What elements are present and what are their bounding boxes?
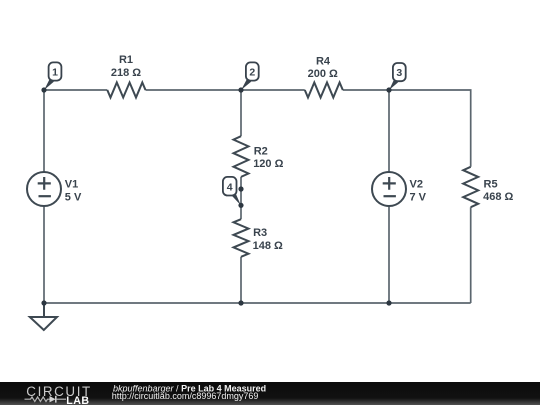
node 2: [241, 62, 258, 90]
voltage source V1: [27, 172, 82, 206]
node 4: [223, 177, 241, 206]
wire: R5 to bottom-right corner: [470, 207, 472, 303]
footer url line: [112, 391, 259, 401]
svg-text:R2: R2: [254, 146, 268, 158]
svg-text:218 Ω: 218 Ω: [111, 67, 141, 79]
voltage source V2: [372, 172, 427, 206]
svg-text:5 V: 5 V: [65, 192, 82, 204]
wire: R4 to node 3: [343, 89, 389, 91]
footer bar: [0, 382, 540, 405]
svg-text:3: 3: [396, 67, 402, 79]
svg-text:120 Ω: 120 Ω: [253, 158, 283, 170]
svg-text:R3: R3: [253, 227, 267, 239]
wire: R2 bottom to node 4 region to R3 top: [240, 177, 242, 219]
CircuitLab logo LAB: [66, 395, 89, 405]
junction dot node 2: [238, 87, 243, 92]
wire: node 3 down to V2 top: [388, 90, 390, 172]
junction dot node 1: [41, 87, 46, 92]
svg-text:7 V: 7 V: [410, 192, 427, 204]
resistor R3: [234, 219, 284, 257]
svg-text:R5: R5: [484, 178, 498, 190]
svg-text:R4: R4: [316, 55, 331, 67]
junction dot R2 bottom terminal: [238, 186, 243, 191]
footer credit line: [113, 383, 266, 393]
wire: node 1 down to V1 top: [43, 90, 45, 172]
svg-text:http://circuitlab.com/c89967dm: http://circuitlab.com/c89967dmgy769: [112, 391, 259, 401]
svg-text:200 Ω: 200 Ω: [308, 68, 338, 80]
junction dot node 3: [386, 87, 391, 92]
wire: node 3 to top-right corner and down right side to R5: [389, 90, 471, 167]
wire: node 2 to R4: [241, 89, 305, 91]
wire: bottom rail: [44, 302, 471, 304]
svg-text:R1: R1: [119, 54, 133, 66]
junction dot node 4: [238, 203, 243, 208]
junction dot middle bottom: [238, 300, 243, 305]
resistor R1: [107, 54, 145, 97]
resistor R2: [234, 136, 284, 177]
svg-text:V1: V1: [65, 179, 78, 191]
junction dot ground: [41, 300, 46, 305]
junction dot V2 bottom: [386, 300, 391, 305]
ground: [30, 303, 57, 330]
svg-text:4: 4: [227, 181, 233, 193]
svg-text:2: 2: [249, 67, 255, 79]
CircuitLab logo resistor-diode glyph: [25, 396, 67, 403]
node 1: [44, 62, 61, 90]
wire: node 2 down to R2: [240, 90, 242, 136]
CircuitLab logo CIRCUIT: [26, 384, 92, 399]
svg-text:LAB: LAB: [66, 395, 89, 405]
svg-text:1: 1: [52, 67, 58, 79]
svg-text:V2: V2: [410, 179, 423, 191]
node 3: [389, 63, 405, 90]
svg-text:148 Ω: 148 Ω: [253, 240, 283, 252]
resistor R5: [463, 167, 513, 207]
wire: R1 to node 2: [146, 89, 242, 91]
wire: V2 bottom to bottom rail: [388, 206, 390, 303]
wire: R3 bottom to bottom rail: [240, 257, 242, 303]
resistor R4: [305, 55, 343, 97]
svg-text:468 Ω: 468 Ω: [483, 191, 513, 203]
wire: V1 bottom to bottom rail: [43, 206, 45, 303]
wire: top rail node1 to R1: [44, 89, 107, 91]
